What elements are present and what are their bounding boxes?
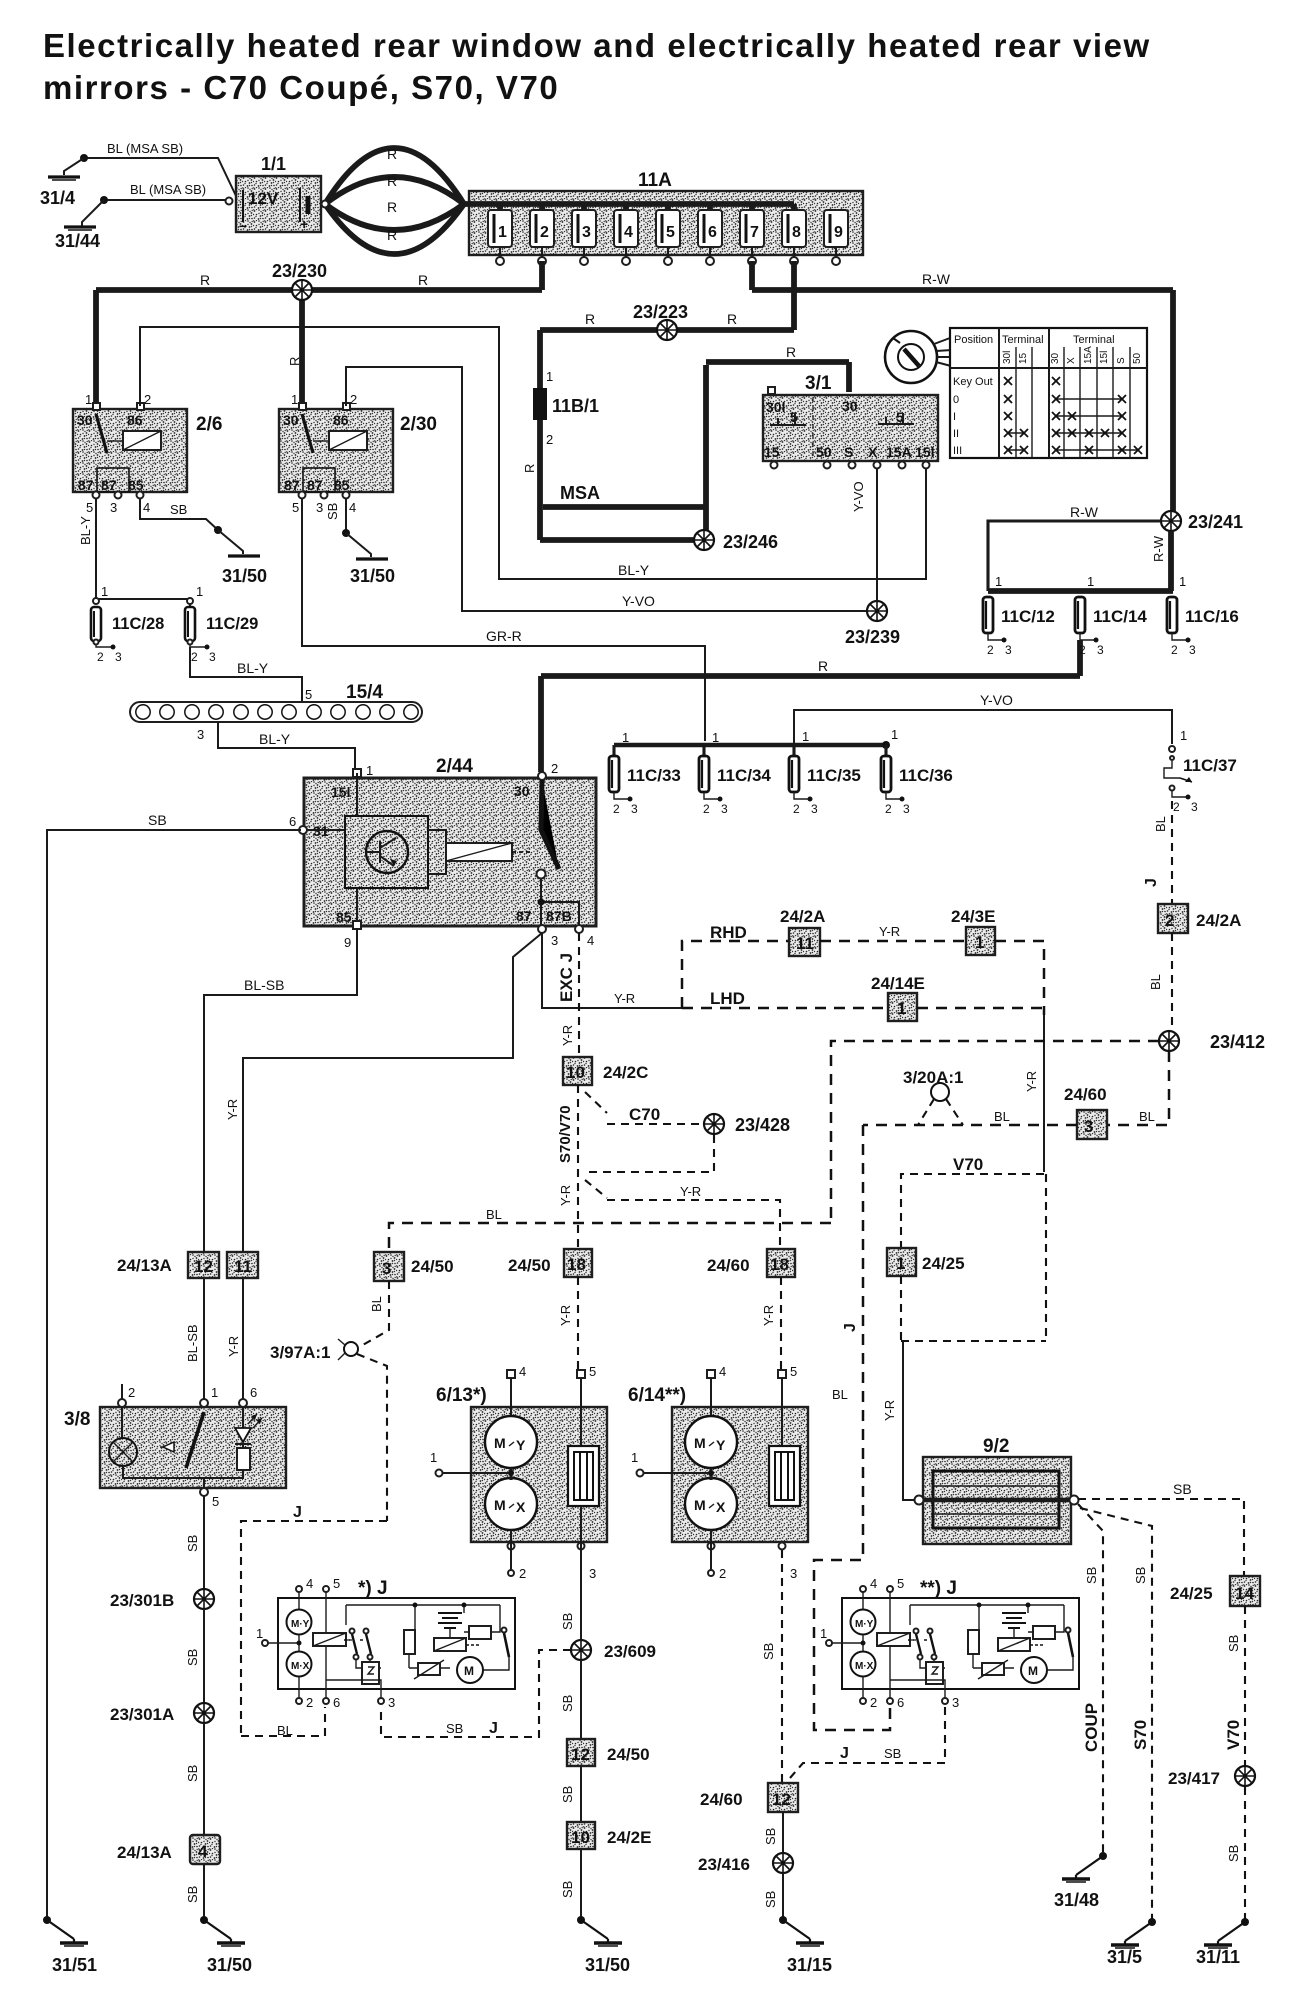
svg-text:11C/29: 11C/29 [206,615,258,633]
svg-text:1: 1 [975,933,984,952]
svg-text:1: 1 [631,1450,638,1465]
svg-text:M: M [1028,1664,1038,1678]
svg-text:2: 2 [191,650,198,664]
svg-text:12V: 12V [248,189,279,208]
relay 2/30 [279,392,437,515]
svg-text:5: 5 [292,500,299,515]
svg-text:31/48: 31/48 [1054,1890,1099,1910]
svg-text:5: 5 [666,224,675,241]
wire bus for 11C/12,14,16 [988,574,1186,591]
splice 23/246 [694,530,778,552]
svg-text:2: 2 [128,1385,135,1400]
svg-text:1: 1 [211,1385,218,1400]
svg-text:3: 3 [1097,643,1104,657]
wire SB dashed COUP [1078,1504,1103,1856]
svg-text:24/50: 24/50 [508,1256,551,1275]
svg-text:2: 2 [719,1566,726,1581]
splice 23/241 [1161,511,1243,532]
svg-text:3: 3 [388,1695,395,1710]
wire SB to ground [185,1864,204,1920]
heated rear window 9/2 [915,1436,1079,1544]
svg-text:1: 1 [891,727,898,742]
svg-text:M·X: M·X [291,1661,310,1672]
wire BL-Y 2/6 pin86 to 3/1 pin 15l [140,327,926,579]
svg-text:23/239: 23/239 [845,627,900,647]
svg-text:SB: SB [1226,1635,1241,1652]
svg-text:5: 5 [589,1364,596,1379]
wire Y-R main vertical [1024,1015,1044,1172]
wire SB 23/609 down [560,1660,581,1739]
splice 23/416 [698,1853,793,1874]
svg-text:6: 6 [250,1385,257,1400]
svg-text:3: 3 [209,650,216,664]
battery 1/1 [226,154,322,234]
svg-text:4: 4 [349,500,356,515]
svg-text:2: 2 [1079,643,1086,657]
wire SB 3/8 pin5 down [185,1496,204,1589]
relay 2/6 [73,392,222,515]
ground 31/50 (center) [577,1916,630,1975]
wire Y-R solid to 9/2 [882,1341,915,1500]
connector 24/60 pin 12 [700,1783,798,1812]
svg-text:SB: SB [1226,1845,1241,1862]
connector 11C/12 [983,597,1055,657]
svg-text:COUP: COUP [1082,1703,1101,1752]
wire R from 11B/1 to splice 23/246 [522,420,696,540]
wire R-W from fuses 7/8 to right side [752,261,1173,511]
wire Y-R to 6/13 pin5 [558,1277,578,1371]
svg-text:24/50: 24/50 [607,1745,650,1764]
wire SB 2/30 pin4 to ground [325,498,350,537]
svg-text:2: 2 [870,1695,877,1710]
svg-text:3: 3 [811,802,818,816]
svg-text:24/2A: 24/2A [780,907,825,926]
svg-text:SB: SB [1133,1567,1148,1584]
connector 11C/16 [1167,597,1239,657]
connector 11C/28 [91,607,164,664]
connector 24/60 pin 3 [1064,1085,1107,1139]
svg-text:2/44: 2/44 [436,756,473,777]
svg-text:Key Out: Key Out [953,376,993,388]
svg-text:SB: SB [185,1535,200,1552]
svg-text:BL: BL [1153,816,1168,832]
svg-text:4: 4 [306,1576,313,1591]
svg-text:6: 6 [708,224,717,241]
svg-text:M·X: M·X [855,1661,874,1672]
wire SB to ground [560,1849,581,1920]
fuse 5 [656,204,680,265]
svg-text:24/13A: 24/13A [117,1256,172,1275]
resistor 11B/1 [533,369,599,447]
svg-text:2: 2 [144,392,151,407]
svg-text:12: 12 [571,1745,590,1764]
svg-text:15A: 15A [1083,346,1094,364]
svg-text:11C/36: 11C/36 [899,766,953,785]
svg-text:5: 5 [897,1576,904,1591]
svg-text:R: R [522,464,537,473]
svg-text:0: 0 [953,394,959,406]
svg-text:S70: S70 [1131,1720,1150,1750]
svg-text:3: 3 [631,802,638,816]
svg-text:1: 1 [802,729,809,744]
svg-text:Electrically heated rear windo: Electrically heated rear window and elec… [43,27,1151,64]
svg-text:4: 4 [719,1364,726,1379]
wire BL 23/412 down to 24/60 pin3 [1107,1051,1169,1125]
svg-text:30l: 30l [766,399,785,415]
svg-text:Y-R: Y-R [558,1185,573,1206]
svg-text:6: 6 [333,1695,340,1710]
svg-text:9: 9 [834,224,843,241]
svg-text:SB: SB [560,1881,575,1898]
svg-text:3: 3 [316,500,323,515]
svg-text:11B/1: 11B/1 [552,396,599,416]
svg-text:Y: Y [516,1437,526,1453]
svg-text:2: 2 [519,1566,526,1581]
svg-text:J: J [1143,878,1160,887]
svg-text:15l: 15l [915,444,934,460]
svg-text:2: 2 [613,802,620,816]
ground 31/4 [40,158,84,208]
svg-text:31/4: 31/4 [40,188,75,208]
wire Y-VO 11C/35 to 11C/37 [794,692,1172,756]
svg-text:BL-Y: BL-Y [237,660,269,676]
fuse 1 [488,204,512,265]
svg-text:9/2: 9/2 [983,1436,1009,1457]
svg-text:87: 87 [516,908,532,924]
svg-text:BL-Y: BL-Y [259,731,291,747]
svg-text:24/13A: 24/13A [117,1843,172,1862]
svg-text:23/301B: 23/301B [110,1591,174,1610]
wire SB 6/13 pin3 to 23/609 [560,1506,581,1640]
wire bus 11C/33..36 [614,727,898,756]
svg-text:2: 2 [540,224,549,241]
wire R fuse 8 branch to 11B/1 [540,311,794,388]
wire J dashed long vertical (right) [814,1125,890,1730]
wire R thick from fuse row to 2/44 pin2 (via 11C/14) [541,640,1080,772]
fuse 7 [740,204,764,265]
svg-text:24/60: 24/60 [1064,1085,1107,1104]
svg-text:V70: V70 [953,1155,983,1174]
splice 23/412 [1159,1031,1265,1052]
svg-text:1: 1 [196,584,203,599]
svg-text:2/30: 2/30 [400,414,437,435]
svg-text:30l: 30l [1002,351,1013,364]
connector 24/2A pin 11 [780,907,825,956]
svg-text:11C/35: 11C/35 [807,766,861,785]
svg-text:30: 30 [514,783,530,799]
svg-text:18: 18 [567,1255,586,1274]
splice 23/301A [110,1703,214,1724]
mirror assembly 6/13*) [430,1364,607,1581]
svg-text:GR-R: GR-R [486,628,522,644]
wire SB dashed down V70 [1224,1606,1245,1765]
svg-text:BL-Y: BL-Y [618,562,650,578]
svg-text:12: 12 [772,1790,791,1809]
svg-text:SB: SB [1084,1567,1099,1584]
svg-text:15l: 15l [1099,351,1110,364]
wire Y-R 24/13A pin11 to 3/8 pin6 [226,1278,243,1399]
wire C70 rejoin [588,1135,714,1172]
svg-text:BL: BL [486,1207,502,1222]
svg-text:+: + [300,216,308,232]
svg-text:10: 10 [571,1828,590,1847]
ignition position table [950,328,1147,458]
connector 24/50 pin 3 [374,1252,454,1281]
svg-text:24/14E: 24/14E [871,974,925,993]
svg-text:X: X [516,1499,526,1515]
svg-text:SB: SB [560,1613,575,1630]
svg-text:3: 3 [952,1695,959,1710]
svg-text:31/15: 31/15 [787,1955,832,1975]
svg-text:Y-R: Y-R [882,1400,897,1421]
fuse 4 [614,204,638,265]
svg-text:5: 5 [212,1494,219,1509]
svg-text:50: 50 [1132,352,1143,364]
fuse 3 [572,204,596,265]
svg-text:31/51: 31/51 [52,1955,97,1975]
svg-text:SB: SB [884,1746,901,1761]
svg-text:24/60: 24/60 [707,1256,750,1275]
connector 24/50 pin 18 [508,1249,592,1277]
svg-text:1: 1 [291,392,298,407]
fuse 2 [530,204,554,265]
wire BL 24/50 pin3 to 3/97A:1 [361,1281,389,1346]
svg-text:R-W: R-W [1070,504,1099,520]
bulb 3/20A:1 [903,1068,963,1125]
svg-text:30: 30 [842,398,858,414]
svg-text:4: 4 [587,933,594,948]
svg-text:S: S [1116,357,1127,364]
wire dashed 24/25 down and across [901,1174,1046,1341]
svg-text:*) J: *) J [358,1578,388,1599]
svg-text:Position: Position [954,334,993,346]
connector 24/13A pins 12,11 [117,1252,258,1278]
splice 23/239 [845,601,900,647]
svg-text:1: 1 [498,224,507,241]
svg-text:24/2A: 24/2A [1196,911,1241,930]
wire SB dashed 9/2 to 24/25 pin14 [1078,1481,1244,1576]
svg-text:2: 2 [793,802,800,816]
svg-text:3: 3 [790,1566,797,1581]
svg-text:15/4: 15/4 [346,682,383,703]
wire BL (MSA SB) lower [100,182,228,204]
svg-text:23/230: 23/230 [272,261,327,281]
svg-text:SB: SB [560,1695,575,1712]
svg-text:BL (MSA SB): BL (MSA SB) [130,182,206,197]
svg-text:MSA: MSA [560,483,600,503]
svg-text:1: 1 [897,999,906,1018]
svg-text:4: 4 [870,1576,877,1591]
svg-text:87B: 87B [546,908,572,924]
svg-text:31/5: 31/5 [1107,1947,1142,1967]
connector 24/2E pin 10 [567,1822,651,1849]
svg-text:R-W: R-W [922,271,951,287]
svg-text:1: 1 [622,730,629,745]
svg-text:1: 1 [101,584,108,599]
svg-text:J: J [293,1504,302,1521]
svg-text:3: 3 [589,1566,596,1581]
svg-text:R: R [287,357,302,366]
svg-text:R: R [786,344,796,360]
splice 23/230 [272,261,327,300]
wire SB dashed from **J pin3 [790,1707,945,1778]
svg-text:M·Y: M·Y [291,1619,310,1630]
svg-text:3: 3 [1191,800,1198,814]
ground 31/5 [1107,1918,1156,1967]
svg-text:11C/28: 11C/28 [112,615,164,633]
svg-text:31/11: 31/11 [1196,1947,1240,1967]
svg-text:III: III [953,445,962,457]
svg-text:M: M [694,1435,706,1451]
svg-text:1: 1 [712,730,719,745]
svg-text:Y-VO: Y-VO [622,593,655,609]
svg-text:3: 3 [1005,643,1012,657]
splice 23/417 [1168,1766,1255,1788]
svg-text:Y-VO: Y-VO [980,692,1013,708]
svg-text:12: 12 [194,1257,213,1276]
svg-text:3/97A:1: 3/97A:1 [270,1343,330,1362]
connector 24/50 pin 12 [567,1739,650,1766]
svg-text:87: 87 [307,477,323,493]
svg-text:6/14**): 6/14**) [628,1385,686,1406]
svg-text:5: 5 [790,1364,797,1379]
svg-text:1/1: 1/1 [261,154,286,174]
svg-text:2: 2 [987,643,994,657]
wire EXC J 2/44 pin4 dashed [557,933,579,1057]
svg-text:Y-R: Y-R [226,1336,241,1357]
ground 31/51 [43,1916,97,1975]
svg-text:30: 30 [77,412,93,428]
svg-text:Y-R: Y-R [558,1305,573,1326]
svg-text:2: 2 [350,392,357,407]
wire link 11C/28 pin1 to 11C/29 pin1 [93,584,203,607]
wire BL-SB 24/13A to 3/8 pin1 [185,1278,204,1399]
wire BL 11C/37 down to 24/2A [1143,801,1172,904]
fuse 6 [698,204,722,265]
svg-text:X: X [1066,357,1077,364]
svg-text:Y-R: Y-R [225,1099,240,1120]
wire BL 24/60 to 3/20A:1 [863,1109,1077,1125]
svg-text:24/2C: 24/2C [603,1063,648,1082]
wire LHD to Y-R vertical [917,1007,1044,1010]
svg-text:23/246: 23/246 [723,532,778,552]
svg-text:2: 2 [885,802,892,816]
svg-text:87: 87 [284,477,300,493]
wire SB 2/44 pin6 to left, down to ground 31/51 [47,812,301,1920]
wire battery to fuse box (4-strand lens), labels R [322,146,465,254]
splice 23/223 [633,302,688,340]
wire LHD dashed [682,989,888,1008]
svg-text:SB: SB [185,1886,200,1903]
connector 24/14E pin 1 [871,974,925,1021]
wire BL-Y 15/4 pin3 to 2/44 pin1 [197,722,355,772]
svg-text:Y: Y [716,1437,726,1453]
svg-text:3: 3 [1189,643,1196,657]
svg-text:14: 14 [1235,1584,1254,1603]
wire SB to ground [763,1873,783,1920]
svg-text:15A: 15A [886,444,912,460]
svg-text:3/8: 3/8 [64,1409,90,1430]
wire C70 branch [585,1092,701,1124]
svg-text:87: 87 [101,477,117,493]
svg-text:BL: BL [1148,974,1163,990]
wire Y-VO ignition X pin down to splice [851,468,877,601]
svg-text:31/50: 31/50 [350,566,395,586]
svg-text:11C/12: 11C/12 [1001,607,1055,626]
connector 24/2C pin 10 [563,1057,648,1085]
svg-text:3: 3 [903,802,910,816]
svg-text:7: 7 [750,224,759,241]
svg-text:1: 1 [1179,574,1186,589]
svg-text:18: 18 [770,1255,789,1274]
svg-text:23/428: 23/428 [735,1115,790,1135]
svg-text:6/13*): 6/13*) [436,1385,487,1406]
connector 11C/14 [1075,597,1147,657]
wire BL 24/2A to splice 23/412 [1148,933,1172,1031]
svg-text:SB: SB [185,1649,200,1666]
svg-text:SB: SB [325,503,340,520]
svg-text:R: R [387,146,397,162]
terminal strip 15/4 [130,682,422,722]
wire SB [185,1723,204,1835]
svg-text:5: 5 [305,687,312,702]
ground 31/50 (3/8 column) [200,1916,252,1975]
svg-text:BL-SB: BL-SB [185,1324,200,1362]
svg-text:86: 86 [333,412,349,428]
wire S70/V70 dashed down [557,1085,578,1249]
svg-text:2: 2 [97,650,104,664]
wire J dashed 3/97A:1 to mirror unit [241,1354,387,1738]
svg-text:M: M [494,1435,506,1451]
svg-text:11C/14: 11C/14 [1093,607,1147,626]
relay 2/44 [289,756,596,950]
wire Y-R RHD to 24/3E [820,924,966,941]
svg-text:85: 85 [336,909,352,925]
svg-text:SB: SB [763,1828,778,1845]
connector 11C/33 [609,756,681,816]
svg-text:31/50: 31/50 [207,1955,252,1975]
connector 24/25 pin 14 [1170,1576,1260,1606]
svg-text:I: I [953,411,956,423]
svg-text:LHD: LHD [710,989,745,1008]
svg-text:J: J [840,1745,849,1762]
svg-text:X: X [868,444,878,460]
wire BL-SB 2/44 pin9 to 24/13A pin12 [204,929,357,1252]
svg-text:85: 85 [128,477,144,493]
svg-text:2: 2 [546,432,553,447]
connector 24/25 pin 1 [887,1248,965,1276]
svg-text:23/301A: 23/301A [110,1705,174,1724]
svg-text:30: 30 [1050,352,1061,364]
wire R vertical to ignition switch [706,344,849,540]
svg-text:BL-SB: BL-SB [244,977,284,993]
connector 11C/34 [699,756,771,816]
ground 31/11 [1196,1918,1249,1967]
ground 31/50 (left) [218,530,267,586]
svg-text:23/412: 23/412 [1210,1032,1265,1052]
svg-text:BL: BL [832,1387,848,1402]
svg-text:1: 1 [256,1626,263,1641]
wire BL (MSA SB) upper [80,141,237,198]
svg-text:24/25: 24/25 [1170,1584,1213,1603]
svg-text:1: 1 [995,574,1002,589]
wire BL-Y 2/6 pin5 to 11C/28 [78,498,96,598]
svg-text:11A: 11A [638,170,672,191]
wire SB dashed from mirror detail to 23/609 [381,1650,571,1737]
svg-text:30: 30 [283,412,299,428]
wire SB dashed S70 [1080,1508,1152,1922]
svg-text:Terminal: Terminal [1002,334,1044,346]
